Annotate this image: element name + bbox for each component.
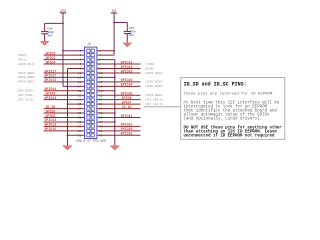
wire GPIO23 to pin 16 (97, 81, 141, 83)
wire pin 30 GND stub (97, 112, 115, 114)
junction GND right row15 (114, 112, 116, 114)
wire GPIO7 to pin 26 (97, 103, 141, 105)
svg-text:9: 9 (80, 68, 82, 71)
svg-text:23: 23 (78, 99, 82, 102)
svg-text:(and optionally, Linux drivers: (and optionally, Linux drivers). (184, 117, 263, 122)
svg-text:37: 37 (78, 130, 82, 133)
svg-text:GPIO12: GPIO12 (121, 114, 133, 118)
svg-text:(SCL1): (SCL1) (17, 57, 27, 61)
svg-text:GPIO26: GPIO26 (44, 127, 56, 131)
ground symbol bottom left (63, 145, 72, 150)
wire pin 39 GND stub (68, 134, 85, 136)
value label C65 100n 16V (129, 27, 136, 37)
svg-text:(GPIO_GEN4): (GPIO_GEN4) (145, 80, 164, 84)
power symbol 3V3 (60, 10, 66, 14)
wire 3V3 vertical rail (62, 13, 64, 87)
wire GPIO25 to pin 22 (97, 94, 141, 96)
wire GPIO20 to pin 38 (97, 130, 141, 132)
svg-text:(GPIO_GEN1): (GPIO_GEN1) (145, 71, 164, 75)
svg-text:ID_SC: ID_SC (122, 105, 132, 109)
svg-text:16V: 16V (47, 35, 52, 38)
svg-text:GPIO3: GPIO3 (45, 56, 55, 60)
svg-text:30: 30 (99, 112, 103, 115)
wire GPIO24 to pin 18 (97, 85, 141, 87)
wire 3V3 to pin 1 (63, 50, 85, 52)
wire GPIO14 to pin 8 (97, 63, 141, 65)
wire pin 34 GND stub (97, 121, 115, 123)
svg-text:25: 25 (78, 103, 82, 106)
ground symbol bottom right (110, 145, 119, 150)
svg-text:(SPI_CE0_N): (SPI_CE0_N) (145, 97, 164, 101)
wire pin 14 GND stub (97, 76, 115, 78)
svg-text:(RXD0): (RXD0) (145, 66, 155, 70)
junction GND right row10 (114, 90, 116, 92)
svg-text:40W 0.1" PIN HDR: 40W 0.1" PIN HDR (76, 139, 106, 143)
svg-text:4: 4 (99, 54, 101, 57)
ground below C65 (123, 43, 132, 48)
note box (181, 78, 285, 140)
svg-text:39: 39 (78, 134, 82, 137)
wire GPIO21 to pin 40 (97, 134, 141, 136)
wire 3V3 to pin 17 (63, 85, 85, 87)
wire GPIO26 to pin 37 (44, 130, 85, 132)
svg-text:100n: 100n (47, 31, 54, 34)
svg-text:(SPI_MISO): (SPI_MISO) (17, 93, 34, 97)
svg-text:26: 26 (99, 103, 103, 106)
junction 3V3 pin1 (62, 50, 64, 52)
svg-text:C65: C65 (129, 27, 134, 30)
svg-text:C64: C64 (47, 28, 52, 31)
wire GPIO18 to pin 12 (97, 72, 141, 74)
svg-text:19: 19 (78, 90, 82, 93)
svg-text:21: 21 (78, 94, 82, 97)
wire GPIO13 to pin 33 (44, 121, 85, 123)
wire 3V3 branch to C64 (45, 22, 64, 24)
svg-text:100n: 100n (129, 31, 136, 34)
svg-text:These pins are reserved for ID: These pins are reserved for ID EEPROM. (184, 92, 275, 97)
svg-text:22: 22 (99, 94, 103, 97)
wire GPIO5 to pin 29 (44, 112, 85, 114)
svg-text:GPIO20: GPIO20 (121, 127, 133, 131)
svg-text:GPIO9: GPIO9 (45, 92, 55, 96)
svg-text:40: 40 (99, 134, 103, 137)
wire pin 20 GND stub (97, 90, 115, 92)
svg-text:28: 28 (99, 108, 103, 111)
svg-text:38: 38 (99, 130, 103, 133)
junction GND right row17 (114, 121, 116, 123)
svg-text:20: 20 (99, 90, 103, 93)
svg-text:ID_SD: ID_SD (45, 105, 55, 109)
wire GPIO6 to pin 31 (44, 116, 85, 118)
svg-text:GPIO23: GPIO23 (121, 78, 133, 82)
svg-text:(GPIO_GEN6): (GPIO_GEN6) (145, 93, 164, 97)
svg-text:27: 27 (78, 108, 82, 111)
svg-text:3: 3 (80, 54, 82, 57)
svg-text:24: 24 (99, 99, 103, 102)
junction GND left row20 (67, 134, 69, 136)
svg-text:1: 1 (80, 50, 82, 53)
svg-text:GPIO14: GPIO14 (121, 60, 133, 64)
junction 5V/C65 (113, 22, 115, 24)
wire GPIO3 to pin 5 (44, 59, 85, 61)
svg-text:(GPIO_GCLK): (GPIO_GCLK) (17, 62, 36, 66)
svg-text:13: 13 (78, 76, 82, 79)
svg-text:18: 18 (99, 85, 103, 88)
svg-text:14: 14 (99, 76, 103, 79)
wire GPIO4 to pin 7 (44, 63, 85, 65)
svg-text:GPIO19: GPIO19 (44, 123, 56, 127)
wire GPIO12 to pin 32 (97, 116, 141, 118)
note paragraph (184, 100, 280, 121)
svg-text:GPIO8: GPIO8 (122, 96, 132, 100)
svg-text:(TXD0): (TXD0) (145, 62, 155, 66)
svg-text:J8: J8 (87, 42, 91, 46)
capacitor C65 (124, 23, 131, 43)
svg-text:ID_SD and ID_SC PINS:: ID_SD and ID_SC PINS: (184, 81, 247, 87)
svg-text:35: 35 (78, 125, 82, 128)
svg-text:GPIO10: GPIO10 (44, 87, 56, 91)
svg-text:(SPI_CE1_N): (SPI_CE1_N) (145, 102, 164, 106)
svg-text:5: 5 (80, 59, 82, 62)
wire GPIO10 to pin 19 (44, 90, 85, 92)
svg-text:11: 11 (78, 72, 82, 75)
svg-text:GPIO21: GPIO21 (121, 132, 133, 136)
wire GPIO15 to pin 10 (97, 68, 141, 70)
GND bus right (114, 60, 116, 146)
junction GND left row13 (67, 103, 69, 105)
svg-text:GPIO13: GPIO13 (44, 118, 56, 122)
wire GPIO17 to pin 11 (44, 72, 85, 74)
svg-text:GPIO24: GPIO24 (121, 83, 133, 87)
svg-text:(GPIO_GEN2): (GPIO_GEN2) (17, 80, 36, 84)
svg-text:GPIO22: GPIO22 (44, 78, 56, 82)
ground below C64 (40, 41, 49, 46)
svg-text:GPIO27: GPIO27 (44, 74, 56, 78)
wire pin 2 to 5V (97, 50, 114, 52)
svg-text:GPIO15: GPIO15 (121, 65, 133, 69)
wire GPIO16 to pin 36 (97, 125, 141, 127)
capacitor C64 (41, 23, 48, 41)
svg-text:12: 12 (99, 72, 103, 75)
connector J8 pads (87, 49, 94, 137)
svg-text:GPIO5: GPIO5 (45, 109, 55, 113)
svg-text:(SPI_MOSI): (SPI_MOSI) (17, 89, 34, 93)
wire GPIO9 to pin 21 (44, 94, 85, 96)
wire GPIO22 to pin 15 (44, 81, 85, 83)
wire pin 25 GND stub (68, 103, 85, 105)
svg-text:6: 6 (99, 59, 101, 62)
svg-text:unconnected if ID EEPROM not r: unconnected if ID EEPROM not required (184, 134, 275, 139)
svg-text:(GPIO_GEN0): (GPIO_GEN0) (17, 71, 36, 75)
svg-text:2: 2 (99, 50, 101, 53)
note pointer line (144, 106, 181, 108)
connector J8 outline (85, 47, 97, 139)
svg-text:(GPIO_GEN1): (GPIO_GEN1) (17, 75, 36, 79)
wire pin 4 to 5V (97, 54, 114, 56)
GND bus left (67, 69, 69, 146)
wire GPIO27 to pin 13 (44, 76, 85, 78)
svg-text:GPIO17: GPIO17 (44, 69, 56, 73)
svg-text:16V: 16V (129, 34, 134, 37)
wire ID_SC to pin 28 (97, 108, 141, 110)
junction 5V pin2 (113, 50, 115, 52)
junction GND right row7 (114, 77, 116, 79)
svg-text:10: 10 (99, 68, 103, 71)
svg-text:8: 8 (99, 63, 101, 66)
svg-text:34: 34 (99, 121, 103, 124)
wire GPIO8 to pin 24 (97, 99, 141, 101)
svg-text:(GPIO_GEN5): (GPIO_GEN5) (145, 84, 164, 88)
svg-text:GPIO18: GPIO18 (121, 69, 133, 73)
wire GPIO2 to pin 3 (44, 54, 85, 56)
wire ID_SD to pin 27 (44, 108, 85, 110)
svg-text:GPIO2: GPIO2 (45, 51, 55, 55)
svg-text:32: 32 (99, 117, 103, 120)
wire 5V branch to C65 (114, 22, 127, 24)
svg-text:17: 17 (78, 85, 82, 88)
wire 5V vertical rail (113, 13, 115, 55)
svg-text:GPIO16: GPIO16 (121, 123, 133, 127)
power symbol 5V (111, 10, 117, 14)
note warning (184, 125, 283, 138)
svg-text:GPIO7: GPIO7 (122, 100, 132, 104)
svg-text:33: 33 (78, 121, 82, 124)
svg-text:GPIO11: GPIO11 (44, 96, 56, 100)
svg-text:(SDA1): (SDA1) (17, 53, 27, 57)
wire pin 9 GND stub (68, 68, 85, 70)
wire GPIO11 to pin 23 (44, 99, 85, 101)
svg-text:15: 15 (78, 81, 82, 84)
svg-text:16: 16 (99, 81, 103, 84)
svg-text:31: 31 (78, 117, 82, 120)
svg-text:(SPI_SCLK): (SPI_SCLK) (17, 97, 34, 101)
wire GPIO19 to pin 35 (44, 125, 85, 127)
svg-text:GPIO6: GPIO6 (45, 114, 55, 118)
svg-text:GPIO4: GPIO4 (45, 60, 55, 64)
svg-text:7: 7 (80, 63, 82, 66)
svg-text:GPIO25: GPIO25 (121, 92, 133, 96)
wire pin 6 GND stub (97, 59, 115, 61)
svg-text:36: 36 (99, 125, 103, 128)
svg-text:29: 29 (78, 112, 82, 115)
junction 3V3/C64 (62, 23, 64, 25)
value label C64 100n 16V (47, 28, 54, 38)
